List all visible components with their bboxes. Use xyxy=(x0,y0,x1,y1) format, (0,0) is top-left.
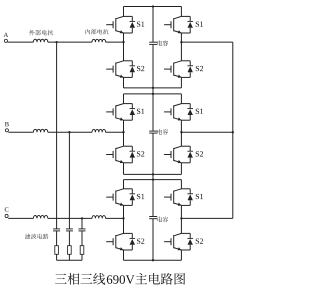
label internal reactor xyxy=(85,29,90,34)
wire row1 left midpoint to S2 collector xyxy=(123,42,125,61)
wire filter leg A xyxy=(56,42,58,229)
wire row2 positive rail xyxy=(124,93,182,95)
wire row1 left S2 emitter to rail xyxy=(123,77,125,88)
wire row3 right midpoint to common bus xyxy=(181,217,232,219)
wire row1 right midpoint to S2 collector xyxy=(180,42,182,61)
transistor S1 row3 right xyxy=(181,188,190,190)
wire row2 left S1 collector lead xyxy=(123,94,125,104)
wire row3 right midpoint to S2 collector xyxy=(180,218,182,233)
wire row3 left midpoint to S2 collector xyxy=(123,218,125,233)
transistor S1 row2 left xyxy=(124,103,133,105)
wire filter common xyxy=(57,259,82,261)
label S1 row1 right xyxy=(196,21,199,26)
label S2 row3 right xyxy=(196,238,199,243)
node row2 positive rail / dc-link xyxy=(152,93,154,95)
label S2 row3 left xyxy=(137,238,140,243)
wire row2 negative rail xyxy=(124,173,182,175)
wire A reactor to internal reactor xyxy=(48,41,92,43)
wire row3 right S2 emitter to rail xyxy=(180,250,182,260)
internal reactor LA2 xyxy=(92,39,106,42)
wire row1 right S1 collector lead xyxy=(180,7,182,17)
wire filter C cap to resistor xyxy=(81,231,83,246)
phase C terminal xyxy=(5,214,8,217)
wire row1 left S1 emitter to midpoint xyxy=(123,33,125,42)
internal reactor LC2 xyxy=(92,216,106,219)
label filter circuit xyxy=(25,234,30,239)
phase A terminal xyxy=(4,39,7,42)
wire row1 left S1 collector lead xyxy=(123,7,125,17)
node row3 positive rail / dc-link xyxy=(152,178,154,180)
node B filter tap xyxy=(68,131,70,133)
transistor S2 row3 right xyxy=(181,232,190,234)
node row3 right midpoint xyxy=(180,217,182,219)
wire row2 dc-link top xyxy=(152,94,154,131)
label S2 row2 right xyxy=(196,151,199,156)
external reactor LA1 xyxy=(33,39,47,42)
wire row3 left S1 emitter to midpoint xyxy=(123,205,125,218)
transistor S1 row1 right xyxy=(181,15,190,17)
wire row2 right S1 collector lead xyxy=(180,94,182,104)
wire A terminal to external reactor xyxy=(8,41,34,43)
wire row2 right midpoint to common bus xyxy=(181,131,232,133)
wire B reactor to internal reactor xyxy=(48,131,92,133)
wire B to bridge midpoint xyxy=(106,131,124,133)
wire B terminal to external reactor xyxy=(9,131,34,133)
label external reactor xyxy=(29,30,35,35)
wire filter A cap to resistor xyxy=(56,231,58,246)
label S1 row2 right xyxy=(196,109,199,114)
wire dc-link row1 to row2 xyxy=(152,88,154,94)
wire row1 right midpoint to common bus xyxy=(181,41,232,43)
label S1 row1 left xyxy=(137,21,140,26)
wire filter A resistor to common xyxy=(56,254,58,260)
node row1 negative rail / dc-link xyxy=(152,87,154,89)
transistor S2 row2 right xyxy=(181,145,190,147)
node C bridge midpoint xyxy=(122,217,124,219)
wire filter B resistor to common xyxy=(68,254,70,260)
wire C to bridge midpoint xyxy=(106,217,124,219)
label S1 row2 left xyxy=(137,109,140,114)
resistor filter C xyxy=(80,246,84,255)
node row2 negative rail / dc-link xyxy=(152,173,154,175)
wire right common bus xyxy=(232,42,234,218)
wire row1 dc-link bottom xyxy=(152,44,154,88)
capacitor filter A xyxy=(53,228,60,230)
resistor filter A xyxy=(55,246,59,255)
wire row1 positive rail xyxy=(124,6,182,8)
label capacitor C2 xyxy=(157,129,162,134)
label capacitor C1 xyxy=(157,40,162,45)
wire row1 right S1 emitter to midpoint xyxy=(180,33,182,42)
phase B terminal xyxy=(5,129,8,132)
capacitor filter B xyxy=(66,228,73,230)
node B bridge midpoint xyxy=(122,131,124,133)
wire filter leg C xyxy=(81,218,83,229)
wire row2 left S2 emitter to rail xyxy=(123,163,125,175)
wire row1 negative rail xyxy=(124,87,182,89)
wire row3 dc-link top xyxy=(152,180,154,217)
transistor S2 row3 left xyxy=(124,232,133,234)
wire row3 right S1 collector lead xyxy=(180,180,182,189)
transistor S2 row1 right xyxy=(181,60,190,62)
wire row2 dc-link bottom xyxy=(152,133,154,174)
external reactor LB1 xyxy=(33,129,47,132)
wire row1 dc-link top xyxy=(152,7,154,43)
wire row3 dc-link bottom xyxy=(152,219,154,261)
wire C terminal to external reactor xyxy=(8,217,33,219)
resistor filter B xyxy=(68,246,72,255)
node row3 negative rail / dc-link xyxy=(152,259,154,261)
transistor S2 row1 left xyxy=(124,60,133,62)
wire row1 right S2 emitter to rail xyxy=(180,77,182,88)
label S1 row3 right xyxy=(196,194,199,199)
node row1 right midpoint xyxy=(180,41,182,43)
external reactor LC1 xyxy=(33,216,47,219)
wire row3 right S1 emitter to midpoint xyxy=(180,205,182,218)
node C filter tap xyxy=(81,217,83,219)
transistor S1 row3 left xyxy=(124,188,133,190)
node A filter tap xyxy=(55,41,57,43)
capacitor C1 dc-link xyxy=(149,41,157,43)
label capacitor C3 xyxy=(157,217,162,222)
transistor S2 row2 left xyxy=(124,145,133,147)
wire C reactor to internal reactor xyxy=(48,217,92,219)
node row1 positive rail / dc-link xyxy=(152,5,154,7)
wire row2 left midpoint to S2 collector xyxy=(123,132,125,146)
wire dc-link row2 to row3 xyxy=(152,174,154,179)
label S2 row1 left xyxy=(137,66,140,71)
wire row2 right S2 emitter to rail xyxy=(180,163,182,175)
wire filter leg B xyxy=(68,132,70,229)
transistor S1 row1 left xyxy=(124,15,133,17)
wire filter C resistor to common xyxy=(81,254,83,260)
wire row2 right midpoint to S2 collector xyxy=(180,132,182,146)
label title 三相三线690V主电路图 xyxy=(55,274,67,284)
node right common bus row2 xyxy=(232,131,234,133)
label S1 row3 left xyxy=(137,194,140,199)
wire row2 left S1 emitter to midpoint xyxy=(123,120,125,132)
transistor S1 row2 right xyxy=(181,103,190,105)
capacitor filter C xyxy=(79,228,86,230)
wire row3 left S1 collector lead xyxy=(123,180,125,189)
wire row3 positive rail xyxy=(124,179,182,181)
label S2 row2 left xyxy=(137,151,140,156)
capacitor C3 dc-link xyxy=(149,216,157,218)
label S2 row1 right xyxy=(196,66,199,71)
wire row3 negative rail xyxy=(124,259,182,261)
wire A to bridge midpoint xyxy=(106,41,124,43)
internal reactor LB2 xyxy=(92,129,106,132)
node A bridge midpoint xyxy=(122,41,124,43)
wire row2 right S1 emitter to midpoint xyxy=(180,120,182,132)
node row2 right midpoint xyxy=(180,131,182,133)
wire row3 left S2 emitter to rail xyxy=(123,250,125,260)
capacitor C2 dc-link xyxy=(149,130,157,132)
wire filter B cap to resistor xyxy=(68,231,70,246)
